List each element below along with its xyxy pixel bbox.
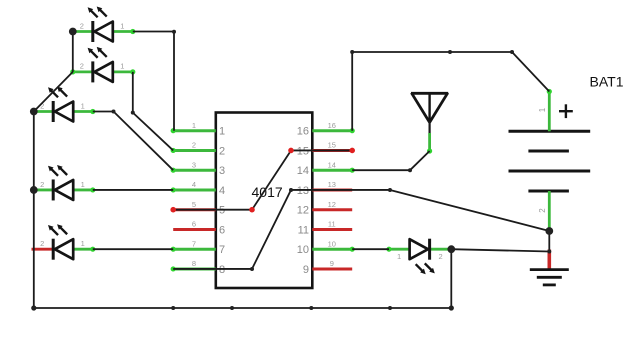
IC U1 pin 9 leg: [312, 267, 352, 270]
IC U1 pin 12 leg: [312, 208, 352, 211]
svg-text:12: 12: [297, 205, 309, 217]
svg-text:11: 11: [298, 224, 309, 236]
svg-text:11: 11: [328, 220, 336, 229]
wire pin 10 to LED6: [352, 248, 389, 250]
wire LED6 junction to ground node: [451, 249, 549, 251]
IC U1 pin 7 leg: [173, 248, 216, 251]
svg-text:7: 7: [192, 239, 196, 248]
antenna W1 pin leg: [428, 133, 431, 151]
svg-text:2: 2: [40, 180, 44, 189]
svg-text:13: 13: [297, 185, 309, 197]
svg-text:14: 14: [328, 160, 336, 169]
wire ground node vertical: [548, 231, 550, 252]
svg-text:10: 10: [297, 244, 309, 256]
svg-text:2: 2: [80, 21, 84, 30]
IC U1 pin 5 leg: [173, 208, 216, 211]
svg-text:15: 15: [297, 145, 309, 157]
svg-text:8: 8: [219, 264, 225, 276]
LED5: [32, 224, 94, 260]
wire LED4 anode to pin 4: [93, 189, 173, 191]
wire LED2 anode to pin 2: [133, 72, 173, 151]
svg-text:1: 1: [397, 252, 401, 261]
svg-text:2: 2: [192, 141, 196, 150]
LED2: [73, 47, 133, 83]
svg-text:9: 9: [303, 264, 309, 276]
IC U1 4017 body: [216, 113, 312, 289]
svg-text:6: 6: [219, 224, 225, 236]
LED3: [34, 87, 93, 123]
svg-text:5: 5: [219, 205, 225, 217]
svg-text:1: 1: [219, 126, 225, 138]
LED6 (bottom right): [389, 239, 451, 275]
ground leg: [548, 250, 552, 270]
svg-text:2: 2: [219, 145, 225, 157]
svg-text:3: 3: [219, 165, 225, 177]
ground symbol: [530, 270, 569, 285]
svg-text:2: 2: [439, 252, 443, 261]
IC U1 pin 3 leg: [173, 169, 216, 172]
svg-text:10: 10: [328, 239, 336, 248]
IC U1 inner pin numbers: [219, 126, 309, 276]
IC U1 pin 16 leg: [312, 129, 352, 132]
wire LED1 cathode to LED2 cathode: [72, 32, 74, 72]
svg-text:9: 9: [330, 259, 334, 268]
IC U1 pin 14 leg: [312, 169, 352, 172]
wire pin 8 to ground node: [173, 190, 549, 269]
wire LED3 anode to pin 3: [93, 112, 173, 171]
battery BAT1 pin 1 label: [538, 107, 547, 112]
wire bottom bus to LED6 junction: [450, 249, 452, 308]
wire left bus LED3 to bottom-left corner: [33, 112, 35, 309]
corner dots: [31, 305, 454, 310]
IC U1 pin 8 leg: [173, 267, 216, 270]
svg-text:14: 14: [297, 165, 309, 177]
wire pin 14 to antenna: [352, 151, 429, 170]
svg-text:1: 1: [120, 21, 124, 30]
svg-text:16: 16: [328, 121, 336, 130]
battery BAT1: [509, 104, 591, 191]
svg-text:7: 7: [219, 244, 225, 256]
svg-text:1: 1: [538, 107, 547, 112]
IC U1 pin 10 leg: [312, 248, 352, 251]
svg-text:6: 6: [192, 220, 196, 229]
IC U1 value label 4017: [252, 184, 283, 200]
svg-text:8: 8: [192, 259, 196, 268]
bend point dots: [112, 30, 552, 310]
unconnected red end dots: [170, 148, 355, 213]
connected green end dots: [70, 29, 552, 272]
battery BAT1 label: [590, 74, 624, 90]
IC U1 pin 11 leg: [312, 228, 352, 231]
svg-text:2: 2: [40, 239, 44, 248]
svg-text:1: 1: [81, 239, 85, 248]
antenna W1: [411, 93, 448, 134]
svg-text:12: 12: [328, 200, 336, 209]
wire LED5 anode to pin 7: [93, 248, 173, 250]
wire bottom bus: [34, 307, 452, 309]
IC U1 pin 13 leg: [312, 188, 352, 191]
IC U1 pin 4 leg: [173, 188, 216, 191]
svg-text:5: 5: [192, 200, 196, 209]
svg-text:16: 16: [297, 126, 309, 138]
svg-text:4: 4: [219, 185, 225, 197]
svg-text:4: 4: [192, 180, 196, 189]
svg-text:1: 1: [192, 121, 196, 130]
wire LED2 cathode to LED3 junction: [34, 72, 73, 112]
svg-text:3: 3: [192, 160, 196, 169]
wire pin 16 to battery positive: [352, 52, 549, 131]
IC U1 pin 15 leg: [312, 149, 352, 152]
svg-text:2: 2: [538, 208, 547, 213]
svg-text:15: 15: [328, 141, 336, 150]
svg-text:2: 2: [80, 62, 84, 71]
battery BAT1 pin 2 label: [538, 208, 547, 213]
battery BAT1 pin 1 leg: [548, 92, 551, 132]
LED1 (top): [73, 7, 133, 43]
IC U1 pin 6 leg: [173, 228, 216, 231]
IC U1 outer pin net labels: [192, 121, 336, 268]
IC U1 pin 1 leg: [173, 129, 216, 132]
svg-text:13: 13: [328, 180, 336, 189]
svg-text:1: 1: [81, 101, 85, 110]
svg-text:1: 1: [120, 62, 124, 71]
svg-text:BAT1: BAT1: [590, 74, 624, 90]
wire pin 5 to pin 15: [173, 150, 352, 209]
svg-text:1: 1: [81, 180, 85, 189]
battery BAT1 pin 2 leg: [548, 191, 551, 231]
LED4: [34, 165, 93, 201]
IC U1 pin 2 leg: [173, 149, 216, 152]
wire LED1 anode to pin 1: [133, 32, 174, 131]
